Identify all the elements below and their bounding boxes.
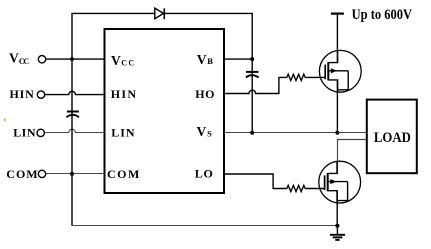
wire HIN terminal to IC pin (hops over vertical rail) xyxy=(45,91,105,94)
pin label Vcc (inside, pin 1) xyxy=(111,53,134,68)
wire ground return (bottom rail) xyxy=(72,225,337,227)
svg-text:V: V xyxy=(9,51,19,66)
svg-text:B: B xyxy=(207,56,213,66)
node: junction dot VCC/bootstrap rail xyxy=(70,57,74,61)
diode D1 (bootstrap diode) xyxy=(155,8,165,19)
power rail bar (Up to 600V) xyxy=(331,13,344,15)
svg-text:HIN: HIN xyxy=(111,87,137,101)
wire VCC terminal to IC pin xyxy=(46,58,105,60)
terminal circle COM xyxy=(38,170,45,177)
svg-text:HO: HO xyxy=(195,87,214,101)
transistor Q2 (low-side MOSFET) xyxy=(319,161,361,203)
transistor Q1 (high-side MOSFET) xyxy=(319,50,361,92)
terminal circle LIN xyxy=(37,129,44,136)
wire resistor to Q1 gate xyxy=(305,76,325,78)
capacitor C2 (bootstrap cap VB-VS) xyxy=(246,72,259,78)
svg-text:LOAD: LOAD xyxy=(374,130,411,146)
wire HO pin to gate resistor (hops over bootstrap leg) xyxy=(224,77,287,93)
node: junction dot VB xyxy=(250,57,254,61)
node: junction dot VS/bootstrap return xyxy=(250,131,254,135)
wire resistor to Q2 gate xyxy=(305,188,325,190)
stray green artifact dot xyxy=(4,119,6,121)
wire VS pin to switch node xyxy=(224,132,337,134)
IC U1 (gate driver box) xyxy=(105,29,225,193)
svg-text:CC: CC xyxy=(121,58,134,67)
wire VB pin to bootstrap node xyxy=(224,58,252,60)
svg-text:LO: LO xyxy=(195,166,213,180)
wire COM terminal to IC pin xyxy=(46,173,105,175)
LOAD box xyxy=(367,100,417,174)
terminal circle HIN xyxy=(37,91,44,98)
wire supply to Q1 drain xyxy=(336,14,338,63)
svg-text:S: S xyxy=(207,129,212,139)
svg-text:V: V xyxy=(111,53,121,68)
pin label VB (inside) xyxy=(197,52,214,67)
terminal label VCC (left outside) xyxy=(9,51,29,66)
wire LIN terminal to IC pin (hops over vertical rail) xyxy=(45,129,105,132)
pin label Vs (inside) xyxy=(197,124,213,139)
svg-text:COM: COM xyxy=(6,167,37,181)
wire Q1 source to VS node xyxy=(336,80,338,133)
capacitor C1 (Vcc decoupling, plates on left rail) xyxy=(66,112,79,118)
resistor R2 (low-side gate) xyxy=(287,185,305,191)
svg-text:LIN: LIN xyxy=(13,126,36,140)
svg-text:LIN: LIN xyxy=(111,126,135,140)
terminal circle VCC xyxy=(38,56,45,63)
node: junction dot switch node xyxy=(335,131,339,135)
svg-text:V: V xyxy=(197,52,207,67)
ground symbol xyxy=(330,226,345,240)
node: junction dot COM/ground rail xyxy=(70,172,74,176)
node: junction dot ground xyxy=(335,224,339,228)
svg-text:HIN: HIN xyxy=(10,87,35,101)
wire diode cathode to VB rail xyxy=(164,13,252,132)
svg-text:COM: COM xyxy=(107,167,139,181)
wire LOAD return to Q2 drain xyxy=(338,140,367,174)
wire Q2 source to ground node xyxy=(336,191,338,226)
svg-text:Up to 600V: Up to 600V xyxy=(352,7,413,23)
wire switch node to LOAD xyxy=(337,132,366,134)
wire LO pin to gate resistor R2 xyxy=(224,174,287,189)
resistor R1 (high-side gate) xyxy=(287,74,305,80)
svg-text:CC: CC xyxy=(19,57,30,66)
wire left vertical rail (Vcc bootstrap feed, top) xyxy=(72,13,155,225)
svg-text:V: V xyxy=(197,124,207,139)
